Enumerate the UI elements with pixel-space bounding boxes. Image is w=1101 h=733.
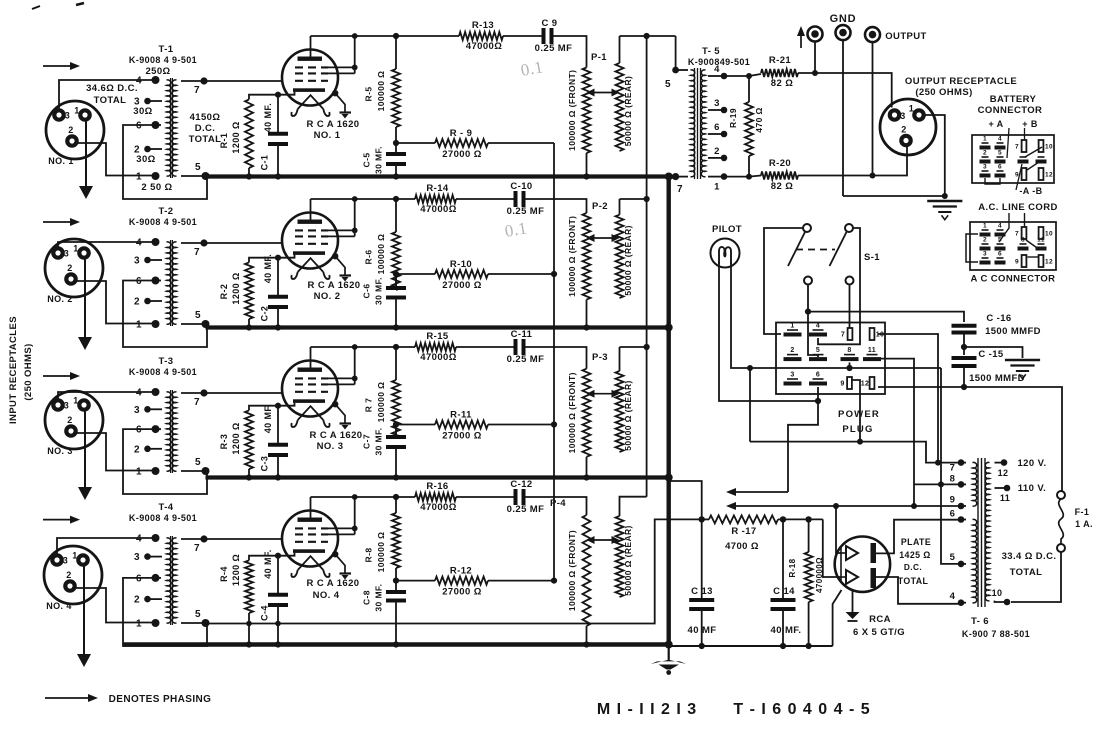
label C-4 (260, 549, 274, 621)
svg-text:TOTAL: TOTAL (1010, 567, 1043, 578)
svg-text:100000 Ω (FRONT): 100000 Ω (FRONT) (567, 216, 577, 297)
capacitor C-3 40 MF (268, 406, 288, 481)
label T-6 (962, 616, 1030, 639)
svg-text:R-6: R-6 (364, 250, 374, 265)
label plate total (898, 537, 931, 586)
svg-text:2: 2 (134, 595, 140, 606)
label -A-B (1016, 164, 1043, 196)
feedback bus wire (553, 143, 555, 581)
resistor R-8 100000 ohm (392, 494, 400, 584)
svg-text:5: 5 (195, 162, 201, 173)
svg-text:5: 5 (195, 457, 201, 468)
svg-text:6: 6 (816, 372, 820, 379)
svg-text:R-18: R-18 (788, 558, 797, 577)
label R-1 (219, 121, 241, 153)
bottom bus right extension (669, 645, 833, 647)
label P-3 front value (567, 372, 577, 453)
cathode ground bus channel 2 (206, 325, 669, 329)
svg-text:5: 5 (195, 310, 201, 321)
svg-text:6: 6 (998, 251, 1002, 258)
svg-text:12: 12 (1045, 259, 1053, 266)
label T-4 part number (129, 513, 197, 523)
label R-20 (769, 158, 793, 192)
svg-text:4: 4 (136, 534, 142, 545)
pencil mark 0.1 (503, 218, 528, 241)
ground symbol output (927, 201, 962, 220)
svg-text:NO. 1: NO. 1 (48, 156, 74, 166)
svg-text:2: 2 (67, 415, 72, 425)
label C-15 (969, 349, 1025, 384)
svg-text:BATTERY: BATTERY (990, 94, 1037, 105)
label 34.6 ohm DC total (86, 83, 138, 106)
label P-1 front value (567, 70, 577, 151)
svg-text:110 V.: 110 V. (1018, 483, 1046, 494)
label R-21 (769, 55, 793, 89)
svg-text:4: 4 (950, 591, 956, 602)
resistor R-19 470 ohm (745, 73, 753, 180)
svg-text:40 MF.: 40 MF. (263, 254, 273, 283)
svg-text:R-12: R-12 (450, 566, 472, 577)
wire R-20 to receptacle pin2 (798, 146, 907, 179)
capacitor C-6 30 MF (386, 274, 406, 331)
svg-text:30 MF.: 30 MF. (374, 277, 384, 305)
label RCA 1620 no 1 (307, 119, 360, 141)
input receptacle NO. 1 (46, 101, 104, 159)
label PILOT (712, 224, 742, 235)
label AC connector (971, 274, 1056, 285)
label AC line cord (978, 202, 1058, 213)
svg-text:TOTAL: TOTAL (189, 134, 222, 145)
svg-text:5: 5 (665, 79, 671, 90)
label RCA 1620 no 3 (310, 430, 363, 452)
svg-text:C-6: C-6 (362, 284, 372, 299)
wire T-2 pin7 to grid (204, 242, 283, 244)
resistor R-10 27000 ohm (396, 270, 554, 278)
junction feedback bus 3 (551, 421, 557, 427)
svg-text:1: 1 (136, 320, 142, 331)
wire plug pin11 to T-6 pin9 line (878, 359, 917, 509)
svg-text:27000 Ω: 27000 Ω (442, 587, 481, 598)
resistor R-20 82 ohm (761, 172, 798, 180)
svg-text:K-9008 4 9-501: K-9008 4 9-501 (129, 513, 197, 523)
svg-text:TOTAL: TOTAL (898, 576, 929, 586)
label RCA 1620 no 4 (307, 578, 360, 601)
svg-text:K-900 7 88-501: K-900 7 88-501 (962, 629, 1030, 639)
svg-text:R C A 1620: R C A 1620 (310, 430, 363, 441)
T-5 secondary pin 1 (708, 173, 727, 192)
wire rear pot 1 to summing bus (620, 33, 676, 39)
ground symbol main bus (651, 646, 686, 675)
svg-text:1425 Ω: 1425 Ω (899, 550, 930, 560)
junction bus ch2 (665, 324, 673, 332)
svg-text:C-5: C-5 (362, 153, 372, 168)
svg-text:1: 1 (73, 244, 78, 254)
svg-text:T - I 6 0 4 0 4 - 5: T - I 6 0 4 0 4 - 5 (733, 701, 870, 718)
wire S-1 bottom-right to plug pin 7 (849, 285, 851, 329)
label P-2 (592, 201, 608, 212)
transformer T-6 (950, 458, 990, 607)
svg-text:50000 Ω (REAR): 50000 Ω (REAR) (623, 525, 633, 596)
svg-text:3: 3 (134, 255, 140, 266)
label R-5 (364, 71, 387, 112)
label R-16 (420, 481, 456, 513)
wire S-1 bottom-left to C-16 (805, 285, 964, 323)
label R-17 (725, 526, 759, 552)
label C-8 (362, 584, 384, 612)
svg-text:30Ω: 30Ω (133, 106, 152, 117)
wire T-1 pin7 to grid (204, 80, 283, 82)
svg-text:1: 1 (136, 172, 142, 183)
svg-text:2: 2 (901, 125, 906, 135)
capacitor C-8 30 MF (386, 581, 406, 648)
svg-text:R C A 1620: R C A 1620 (308, 280, 361, 291)
svg-text:-A -B: -A -B (1019, 186, 1042, 196)
phasing arrow output (797, 26, 805, 48)
T-6 pin 10 (992, 588, 1011, 605)
svg-text:R-16: R-16 (426, 481, 448, 492)
svg-text:7: 7 (194, 543, 200, 554)
plate rail channel 2 (311, 198, 515, 200)
svg-text:R C A 1620: R C A 1620 (307, 578, 360, 589)
wire R-17 left to T-4 line (206, 519, 702, 626)
svg-text:OUTPUT: OUTPUT (885, 31, 926, 42)
label S-1 (864, 252, 880, 263)
label F-1 (1075, 507, 1093, 529)
phasing arrow input 4 (43, 516, 80, 524)
svg-text:40 MF: 40 MF (688, 625, 717, 636)
label C-13 (688, 586, 717, 636)
wire pin3 to T-1 pin4 (59, 80, 153, 110)
svg-text:9: 9 (1015, 259, 1019, 266)
potentiometer P-3 front 100000 ohm (583, 369, 591, 481)
label P-3 (592, 352, 608, 363)
svg-text:6: 6 (136, 573, 142, 584)
wire pin3 to T-2 pin4 (58, 242, 153, 248)
capacitor C-12 0.25 MF (516, 489, 587, 515)
svg-text:3: 3 (983, 164, 987, 171)
battery connector (972, 135, 1054, 184)
pot P-1 rear element (616, 63, 624, 151)
svg-text:33.4 Ω D.C.: 33.4 Ω D.C. (1002, 551, 1057, 562)
capacitor C-2 40 MF (268, 258, 288, 331)
wire plug pin10 to T-6 pin7 (878, 334, 941, 466)
label T-3 part number (129, 367, 197, 377)
wire pilot right to plug pin 8 (731, 262, 941, 371)
svg-text:6 X 5 GT/G: 6 X 5 GT/G (853, 627, 905, 638)
label NO. 1 (48, 156, 74, 166)
svg-text:A.C. LINE CORD: A.C. LINE CORD (978, 202, 1058, 213)
svg-text:R-3: R-3 (219, 434, 229, 450)
T-6 120V tap (995, 458, 1047, 478)
wire plug pin6 down (817, 387, 819, 401)
svg-text:C-1: C-1 (260, 155, 270, 171)
label 30 ohm lower (136, 154, 155, 165)
ganged wiper arrows P-1 (587, 89, 620, 97)
svg-text:4: 4 (714, 64, 720, 75)
wire OUTPUT terminal down (872, 42, 874, 176)
svg-text:C-2: C-2 (260, 306, 270, 322)
svg-text:2: 2 (67, 263, 72, 273)
svg-text:2: 2 (134, 444, 140, 455)
svg-text:6: 6 (950, 509, 956, 520)
cathode ground bus channel 4 (123, 642, 669, 647)
svg-text:C 13: C 13 (691, 586, 713, 597)
output receptacle (880, 99, 936, 155)
svg-text:6: 6 (136, 276, 142, 287)
label R-10 (442, 259, 481, 291)
ganged wiper arrows P-4 (587, 536, 620, 544)
plate rail channel 4 (311, 496, 515, 498)
label T-1 (159, 44, 174, 55)
pot P-2 rear element (616, 215, 624, 298)
capacitor C-15 1500 MMFD (952, 347, 977, 390)
svg-text:T-3: T-3 (159, 356, 174, 367)
resistor R-6 100000 ohm (392, 196, 400, 290)
svg-text:100000 Ω: 100000 Ω (376, 532, 386, 573)
svg-text:82 Ω: 82 Ω (771, 181, 793, 192)
wire row to T-6 pin 7 (750, 442, 961, 463)
ground arrow receptacle 3 (78, 410, 92, 500)
cathode ground bus channel 1 (206, 174, 669, 178)
wire C-15 to fuse (964, 387, 1062, 491)
svg-text:0.25 MF: 0.25 MF (507, 206, 545, 217)
svg-text:11: 11 (1037, 237, 1045, 244)
svg-text:INPUT RECEPTACLES: INPUT RECEPTACLES (8, 316, 19, 424)
svg-text:2: 2 (66, 570, 71, 580)
resistor R-1 1200 ohm (245, 95, 279, 180)
svg-text:7: 7 (677, 184, 683, 195)
junction cathode 4 (275, 553, 281, 559)
label +B (1022, 119, 1038, 140)
label T-5 pin 7 (677, 184, 683, 195)
junction bus ch3 (665, 474, 673, 482)
pencil mark 0.1 (519, 57, 544, 80)
svg-text:2: 2 (983, 150, 987, 157)
svg-text:(250 OHMS): (250 OHMS) (23, 343, 34, 400)
svg-text:A C CONNECTOR: A C CONNECTOR (971, 274, 1056, 285)
label P-1 (591, 52, 607, 63)
svg-text:7: 7 (950, 463, 956, 474)
svg-text:3: 3 (134, 552, 140, 563)
label R-14 (420, 183, 456, 215)
svg-text:3: 3 (790, 372, 794, 379)
svg-text:1200 Ω: 1200 Ω (231, 422, 241, 454)
label C-6 (362, 277, 384, 305)
potentiometer P-2 rear 50000 ohm (619, 199, 621, 215)
svg-text:P-1: P-1 (591, 52, 607, 63)
junction feedback bus 2 (551, 271, 557, 277)
svg-text:100000 Ω (FRONT): 100000 Ω (FRONT) (567, 530, 577, 611)
label P-3 rear value (623, 380, 633, 451)
svg-text:R-2: R-2 (219, 284, 229, 300)
wire rear pot 2 to summing bus (620, 196, 650, 202)
wire pin2 to T-2 pin1 (73, 281, 152, 324)
svg-text:50000 Ω (REAR): 50000 Ω (REAR) (623, 380, 633, 451)
T-5 secondary pin 6 (708, 122, 727, 137)
capacitor C-9 0.25 MF (544, 28, 587, 68)
svg-text:POWER: POWER (838, 409, 880, 420)
power plug (776, 323, 885, 395)
svg-text:47000Ω: 47000Ω (420, 502, 456, 513)
svg-text:8: 8 (847, 347, 851, 354)
terminal B+ (808, 27, 823, 42)
wire R-21 to terminal and receptacle pin3 (798, 70, 892, 108)
phasing arrow heater 2 (726, 502, 961, 510)
resistor R-13 47000 ohm (459, 32, 503, 40)
svg-text:T- 5: T- 5 (702, 46, 720, 57)
resistor R-2 1200 ohm (245, 258, 279, 331)
wire plug pin8 down (849, 363, 851, 369)
label POWER PLUG (838, 409, 880, 435)
svg-text:2: 2 (714, 146, 720, 157)
svg-text:+ B: + B (1022, 119, 1038, 129)
svg-text:3: 3 (983, 251, 987, 258)
resistor R-3 1200 ohm (245, 406, 279, 481)
svg-text:9: 9 (840, 381, 844, 388)
capacitor C-14 40 MF (771, 519, 796, 649)
svg-text:100000 Ω (FRONT): 100000 Ω (FRONT) (567, 372, 577, 453)
wire pin2 to T-1 pin1 (74, 143, 152, 176)
label NO. 4 (46, 601, 72, 611)
label R-3 (219, 422, 241, 454)
svg-text:1200 Ω: 1200 Ω (231, 272, 241, 304)
label 4150 ohm DC total (189, 112, 222, 145)
junction bus ch1 (665, 173, 673, 181)
wire rectifier plate lower to T-6 pin4 (876, 577, 961, 604)
svg-text:PLATE: PLATE (901, 537, 931, 547)
capacitor C-4 40 MF (268, 556, 288, 648)
label NO. 3 (47, 446, 73, 456)
label P-2 rear value (623, 225, 633, 296)
svg-text:40 MF.: 40 MF. (263, 404, 273, 433)
phasing arrow input 3 (43, 372, 80, 380)
resistor R-16 47000 ohm (415, 493, 456, 501)
transformer T-3 (134, 388, 209, 478)
plate rail channel 1 (311, 35, 543, 37)
svg-text:30Ω: 30Ω (136, 154, 155, 165)
svg-text:T-1: T-1 (159, 44, 174, 55)
svg-text:1: 1 (73, 396, 78, 406)
svg-text:10: 10 (1045, 144, 1053, 151)
label C-10 (507, 181, 545, 217)
svg-text:250Ω: 250Ω (145, 66, 170, 77)
svg-text:50000 Ω (REAR): 50000 Ω (REAR) (623, 225, 633, 296)
svg-text:7: 7 (194, 247, 200, 258)
svg-text:6: 6 (998, 164, 1002, 171)
label T-5 part number (688, 57, 750, 67)
svg-text:5: 5 (998, 237, 1002, 244)
ground arrow receptacle 4 (77, 565, 91, 667)
phasing arrow heater 1 (726, 401, 818, 496)
wire C-16 junction to ground (964, 347, 1023, 358)
wire S-1 top-left to plug pin 1 (764, 228, 803, 334)
label R-18 (788, 557, 824, 593)
capacitor C-1 40 MF (268, 95, 288, 180)
T-5 secondary pin 2 (708, 146, 727, 161)
label C-7 (362, 428, 384, 456)
svg-text:6: 6 (714, 122, 720, 133)
svg-text:10: 10 (876, 332, 885, 339)
svg-text:C-8: C-8 (362, 590, 372, 605)
svg-text:3: 3 (64, 401, 69, 411)
svg-text:7: 7 (841, 332, 845, 339)
junction cathode 3 (275, 403, 281, 409)
svg-text:11: 11 (868, 347, 876, 354)
svg-text:4: 4 (136, 388, 142, 399)
cathode ground bus channel 3 (206, 475, 669, 479)
wire terminal to R-21 (814, 42, 816, 74)
svg-text:R-13: R-13 (472, 20, 494, 31)
wire heater line down to T-6 pin8 (938, 368, 961, 564)
wire plug pin9 jog (852, 380, 863, 445)
svg-text:1: 1 (909, 104, 914, 114)
svg-text:34.6Ω D.C.: 34.6Ω D.C. (86, 83, 138, 94)
svg-text:2: 2 (68, 125, 73, 135)
svg-text:NO. 4: NO. 4 (313, 590, 340, 601)
label T-5 (702, 46, 720, 57)
svg-text:NO. 3: NO. 3 (47, 446, 73, 456)
label RCA 6X5 (853, 614, 905, 638)
potentiometer P-4 rear 50000 ohm (620, 497, 647, 516)
svg-text:D.C.: D.C. (195, 123, 216, 134)
wire plug pin12 to C-15 (878, 386, 964, 388)
svg-text:0.25 MF: 0.25 MF (507, 354, 545, 365)
svg-text:27000 Ω: 27000 Ω (442, 149, 481, 160)
label T-4 (159, 502, 174, 513)
svg-text:5: 5 (816, 347, 820, 354)
svg-text:1: 1 (74, 106, 79, 116)
pot P-3 rear element (616, 371, 624, 452)
svg-text:R-19: R-19 (728, 108, 738, 128)
svg-text:82 Ω: 82 Ω (771, 78, 793, 89)
svg-text:2: 2 (983, 237, 987, 244)
svg-text:40 MF.: 40 MF. (263, 103, 273, 132)
svg-text:27000 Ω: 27000 Ω (442, 431, 481, 442)
svg-text:0.1: 0.1 (519, 57, 544, 80)
resistor R-14 47000 ohm (415, 195, 456, 203)
wire junction to plug pin 5 (808, 312, 818, 357)
svg-text:R-1: R-1 (219, 133, 229, 149)
wire T-3 pin7 to grid (204, 392, 283, 394)
T-5 secondary pin 3 (708, 98, 727, 113)
svg-text:1500 MMFD: 1500 MMFD (985, 326, 1041, 337)
svg-text:12: 12 (998, 468, 1009, 478)
label 33.4 ohm total (1002, 551, 1057, 578)
svg-text:C 9: C 9 (542, 18, 558, 29)
svg-text:R-21: R-21 (769, 55, 792, 66)
svg-text:47000Ω: 47000Ω (466, 41, 502, 52)
summing bus to T-5 pin 5 (646, 36, 648, 497)
svg-text:M I - I I 2 I 3: M I - I I 2 I 3 (597, 701, 697, 718)
wire loop T-3 pin6 to pin5 (123, 429, 207, 494)
wire T-6 pin8 row (914, 483, 961, 485)
label battery connector (978, 94, 1043, 116)
junction cathode 1 (275, 92, 281, 98)
svg-text:4150Ω: 4150Ω (190, 112, 221, 123)
label P-1 rear value (623, 76, 633, 147)
wire rectifier cathode ground (846, 589, 860, 621)
svg-text:P-3: P-3 (592, 352, 608, 363)
svg-text:NO. 2: NO. 2 (314, 291, 341, 302)
svg-text:P-2: P-2 (592, 201, 608, 212)
label R-13 (466, 20, 502, 52)
svg-text:100000 Ω: 100000 Ω (376, 234, 386, 275)
transformer T-2 (134, 238, 209, 331)
svg-text:R-4: R-4 (219, 566, 229, 582)
svg-text:3: 3 (64, 249, 69, 259)
wire vertical pilot line branch (749, 368, 751, 442)
wire T-5 pin4 to R-21 (724, 74, 761, 76)
